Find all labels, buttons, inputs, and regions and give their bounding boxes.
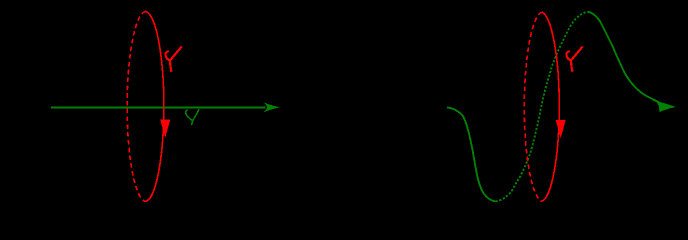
green wave: dashed rising half-wave (trough to peak, behind plane) xyxy=(496,12,589,202)
label gamma (green): tail stroke xyxy=(191,121,192,125)
polarization circle: dashed left half (left ellipse) xyxy=(127,12,145,202)
green arrowhead (axis, pointing right) xyxy=(264,102,280,112)
green wave: solid descending tail (peak to arrow) xyxy=(588,12,659,102)
label gamma-prime (left, red): descender stroke xyxy=(170,61,171,72)
polarization circle: dashed left half (right ellipse) xyxy=(524,12,541,201)
polarization circle: solid right half (left ellipse) xyxy=(146,12,164,202)
green wave arrowhead (pointing right) xyxy=(655,101,676,113)
polarization circle: solid right half (right ellipse) xyxy=(542,12,559,201)
label gamma-prime (right, red): descender stroke xyxy=(571,61,572,72)
label gamma-prime (left, red): diagonal arm + prime stroke xyxy=(169,46,181,61)
label gamma (green): right arm stroke xyxy=(193,109,199,121)
label gamma-prime (right, red): diagonal arm + prime stroke xyxy=(570,46,582,61)
wire: green propagation axis arrow shaft xyxy=(51,107,266,109)
green wave: solid first half-wave (crest to trough) xyxy=(447,108,496,202)
red rotation arrowhead (pointing down, right ellipse) xyxy=(556,120,566,138)
label gamma-prime (right, red): curl stroke xyxy=(566,52,571,61)
label gamma-prime (left, red): curl stroke xyxy=(165,52,170,61)
label gamma (green): curl + bowl stroke xyxy=(186,110,193,121)
red rotation arrowhead (pointing down, left ellipse) xyxy=(160,120,170,138)
